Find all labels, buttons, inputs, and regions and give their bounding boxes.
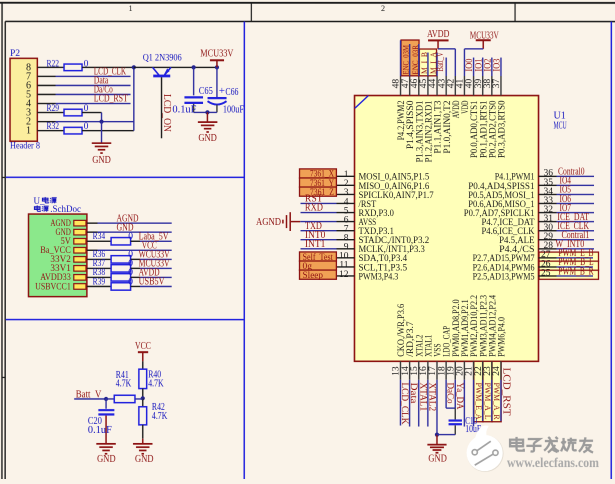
- svg-text:0.1uF: 0.1uF: [172, 105, 196, 116]
- svg-text:USBVCC1: USBVCC1: [35, 281, 71, 291]
- svg-text:GND: GND: [117, 223, 134, 234]
- svg-text:LCD_ON: LCD_ON: [161, 94, 172, 132]
- svg-text:IO3: IO3: [492, 58, 502, 71]
- svg-text:GND: GND: [97, 454, 116, 465]
- svg-text:R39: R39: [93, 277, 106, 287]
- svg-text:USB5V: USB5V: [139, 277, 166, 288]
- svg-text:0.1uF: 0.1uF: [88, 425, 112, 436]
- svg-text:AGND: AGND: [256, 217, 281, 228]
- svg-text:4.7K: 4.7K: [116, 379, 132, 390]
- svg-text:R34: R34: [93, 232, 106, 242]
- svg-text:XTAL1: XTAL1: [418, 383, 428, 412]
- svg-text:37: 37: [492, 79, 502, 89]
- svg-text:PWM_E_A: PWM_E_A: [474, 383, 483, 420]
- svg-text:P2: P2: [10, 49, 20, 59]
- svg-text:1: 1: [129, 4, 133, 13]
- svg-text:MCU33V: MCU33V: [200, 48, 234, 59]
- svg-text:GND: GND: [428, 453, 447, 464]
- svg-text:GND: GND: [92, 155, 111, 166]
- svg-text:GND: GND: [198, 133, 217, 144]
- svg-text:Data: Data: [409, 383, 419, 404]
- svg-text:.SchDoc: .SchDoc: [50, 204, 81, 214]
- svg-text:R32: R32: [47, 122, 60, 132]
- svg-text:R29: R29: [47, 104, 60, 114]
- svg-text:www.elecfans.com: www.elecfans.com: [507, 455, 600, 470]
- svg-text:PWM_B_R: PWM_B_R: [558, 266, 594, 277]
- svg-text:GND: GND: [135, 454, 154, 465]
- svg-text:VCC: VCC: [135, 341, 151, 352]
- svg-text:P2.5,AD13,PWM5: P2.5,AD13,PWM5: [473, 271, 535, 282]
- svg-text:+: +: [219, 85, 225, 97]
- svg-text:Q1 2N3906: Q1 2N3906: [143, 53, 182, 63]
- svg-text:DaCo: DaCo: [446, 383, 456, 404]
- svg-text:PWM_A_R: PWM_A_R: [492, 383, 501, 421]
- svg-text:PWM6,P4.0: PWM6,P4.0: [496, 317, 507, 357]
- svg-text:0: 0: [128, 277, 133, 287]
- svg-text:1: 1: [26, 126, 31, 137]
- svg-text:C66: C66: [225, 87, 238, 98]
- svg-text:P0.3,AD3,RTS0: P0.3,AD3,RTS0: [497, 100, 508, 158]
- svg-text:INT1: INT1: [305, 239, 325, 250]
- svg-text:Header 8: Header 8: [10, 142, 40, 152]
- svg-text:XTAL2: XTAL2: [427, 383, 437, 412]
- svg-text:4.7K: 4.7K: [148, 378, 164, 389]
- svg-text:PWM3,P4.3: PWM3,P4.3: [358, 271, 398, 282]
- svg-text:Batt_V: Batt_V: [435, 52, 445, 72]
- svg-text:LCD_RST: LCD_RST: [94, 94, 128, 105]
- svg-text:LCD_RST: LCD_RST: [500, 368, 512, 416]
- svg-text:RXD: RXD: [305, 203, 323, 214]
- svg-text:25: 25: [541, 268, 551, 278]
- svg-text:AVDD: AVDD: [427, 29, 450, 40]
- svg-text:R22: R22: [47, 59, 60, 69]
- svg-text:12: 12: [339, 270, 349, 280]
- svg-text:100uF: 100uF: [223, 104, 244, 115]
- svg-text:Ya_DA: Ya_DA: [455, 383, 465, 410]
- svg-text:C65: C65: [199, 86, 213, 97]
- svg-text:PWM_A_L: PWM_A_L: [483, 383, 492, 420]
- svg-text:4.7K: 4.7K: [152, 411, 168, 422]
- svg-text:2: 2: [381, 4, 385, 13]
- svg-text:Sleep: Sleep: [302, 271, 323, 281]
- svg-text:LCD_CLK: LCD_CLK: [400, 383, 410, 426]
- svg-text:MCU: MCU: [554, 120, 568, 131]
